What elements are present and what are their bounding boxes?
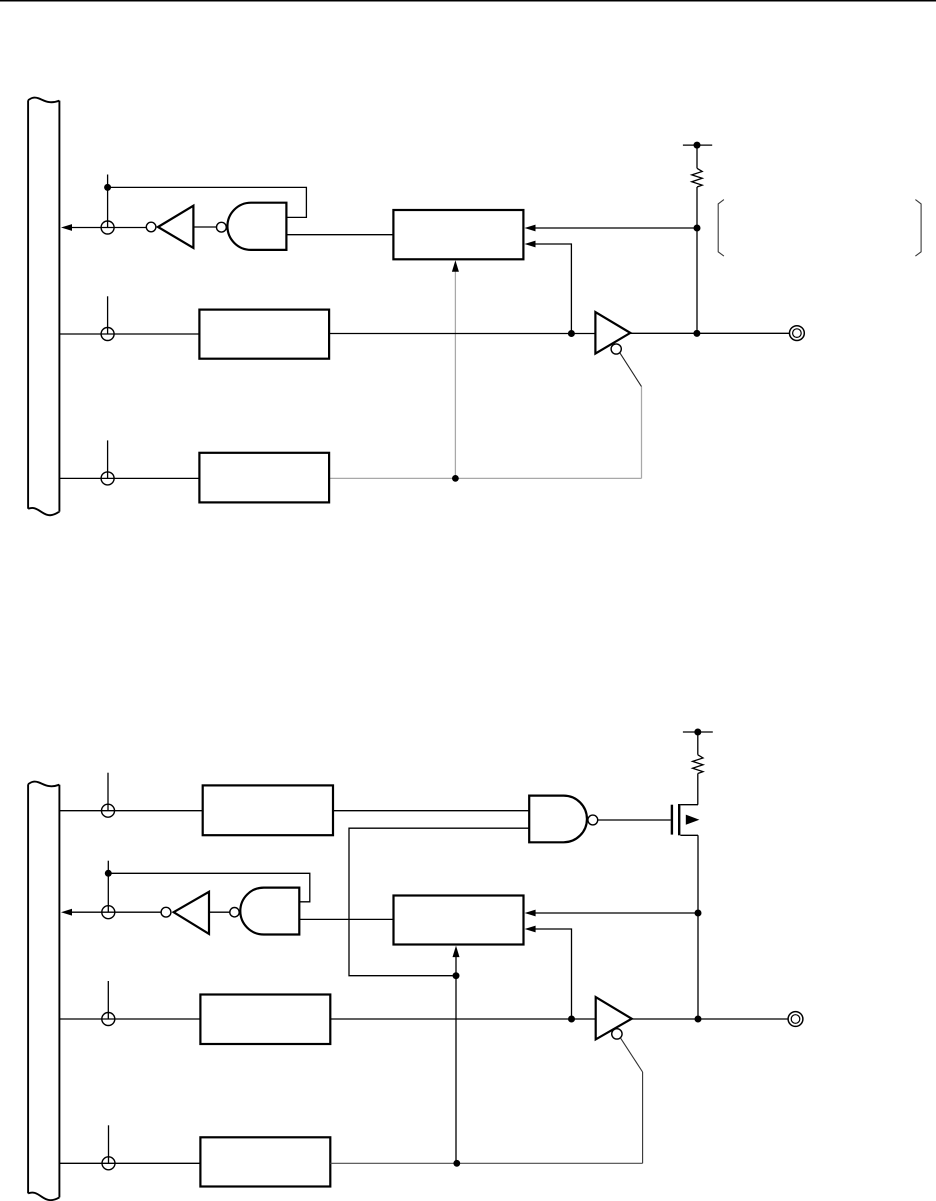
- wire B7 to enable d2 (dark gray): [330, 1162, 642, 1164]
- note bracket right d1: [915, 200, 921, 257]
- wire VDD to resistor R1: [696, 145, 698, 168]
- node enable branch d1: [452, 475, 459, 482]
- arrowhead into B4: [204, 807, 215, 814]
- node RD tap d1: [104, 184, 111, 191]
- wire B5 input 2: [530, 929, 572, 1019]
- inverter U2 bubble: [146, 222, 156, 232]
- arrowhead B1 input 1: [525, 225, 536, 232]
- wire NAND U1 lower input to latch B1: [286, 234, 393, 236]
- wire B4 to NAND U4 upper input: [333, 810, 529, 812]
- wire inverter to NAND d2: [209, 911, 230, 913]
- arrowhead into B2: [201, 331, 212, 338]
- register box B6: [200, 995, 330, 1045]
- wire bus to box B4: [59, 810, 202, 812]
- arrowhead B5 input 1: [525, 910, 536, 917]
- selector circle row3 d1: [101, 472, 114, 485]
- page top rule: [0, 0, 936, 2]
- register box B2 (middle): [199, 310, 329, 359]
- NAND U4 bubble: [588, 815, 598, 825]
- wire bus to box B3: [59, 477, 199, 479]
- pad P2 inner: [791, 1015, 800, 1024]
- NAND U1 bubble: [217, 222, 227, 232]
- selector circle rowD d2: [102, 1157, 115, 1170]
- wire B5 bottom select d2: [455, 955, 457, 1163]
- resistor R2: [693, 755, 703, 774]
- wire R2 to Q1 drain: [697, 774, 699, 805]
- wire VDD to resistor R2: [697, 732, 699, 755]
- wire inverter to NAND d1: [193, 226, 216, 228]
- note bracket left d1: [718, 200, 724, 257]
- arrowhead into bus d1 RD: [61, 224, 72, 231]
- node pull-up branch d1: [694, 225, 701, 232]
- output buffer U3 (tri-state): [595, 312, 630, 354]
- wire B1 bottom select (gray): [454, 268, 456, 478]
- wire RD feedback d1 (to NAND upper input): [108, 187, 307, 217]
- register box B5 (latch of d2): [394, 896, 524, 945]
- output buffer U7 (tri-state): [596, 997, 632, 1039]
- wire B1 input 1 from pull-up node: [530, 227, 697, 229]
- selector circle RD d2: [102, 906, 115, 919]
- wire enable diagonal d1: [620, 353, 642, 387]
- transistor Q1 arrow: [686, 815, 700, 825]
- wire U4 lower input from latch select node: [349, 828, 529, 976]
- NAND U4 (right facing): [529, 796, 587, 843]
- output latch box B7 (bottom of d2): [200, 1137, 330, 1186]
- wire enable vertical d2: [642, 1072, 644, 1163]
- node VDD d2: [694, 729, 701, 736]
- transistor Q1 channel bar: [678, 804, 680, 835]
- wire RD select stub d1: [107, 175, 109, 228]
- NAND U6 (left facing): [240, 888, 299, 935]
- wire enable diagonal d2: [621, 1038, 643, 1072]
- arrowhead into B5 bottom: [453, 946, 460, 958]
- node tristate input junction d1: [568, 330, 575, 337]
- selector circle rowA d2: [102, 804, 115, 817]
- wire RD select stub d2: [107, 861, 109, 913]
- enable bubble U7: [612, 1029, 622, 1039]
- internal bus 1 (left vertical double line with torn ends): [28, 98, 59, 516]
- wire bus to box B6: [59, 1018, 200, 1020]
- wire select stub rowA d2: [107, 773, 109, 811]
- wire Q1 drain lead: [680, 804, 698, 806]
- inverter U2: [158, 206, 193, 248]
- wire output row right d1: [630, 332, 789, 334]
- wire Q1 source to pad line: [697, 835, 699, 1019]
- node B5 input branch: [695, 910, 702, 917]
- inverter U5 bubble: [161, 907, 171, 917]
- output latch box B3 (bottom of d1): [199, 453, 329, 503]
- wire select stub rowC d2: [107, 981, 109, 1019]
- register box B1 (top): [393, 210, 523, 259]
- VDD rail d1: [683, 144, 712, 146]
- NAND U6 bubble: [230, 908, 239, 917]
- arrowhead into bus d2 RD: [61, 909, 72, 916]
- wire NAND U6 lower input to latch B5: [299, 918, 393, 920]
- node pad junction d2: [695, 1016, 702, 1023]
- arrowhead into B1 bottom: [452, 260, 459, 272]
- arrowhead into B3: [201, 475, 212, 482]
- register box B4 (top of d2): [203, 785, 333, 835]
- wire RD row d1 (bus to inverter): [72, 227, 147, 229]
- node latch select d2: [453, 972, 460, 979]
- inverter U5: [174, 892, 209, 934]
- pad P1 inner: [793, 329, 802, 338]
- selector circle RD d1: [101, 221, 114, 234]
- node VDD d1: [694, 142, 701, 149]
- resistor R1: [692, 168, 702, 187]
- node RD tap d2: [105, 870, 112, 877]
- wire output row left d2: [330, 1018, 595, 1020]
- arrowhead into B6: [202, 1016, 213, 1023]
- wire select stub row2 d1: [107, 296, 109, 334]
- selector circle rowC d2: [102, 1013, 115, 1026]
- wire RD feedback d2 (to NAND upper input): [108, 873, 309, 902]
- wire B5 input 1 from pad line: [530, 912, 698, 914]
- node tristate input junction d2: [568, 1016, 575, 1023]
- transistor Q1 gate bar: [671, 805, 673, 835]
- wire bus to box B7: [59, 1162, 200, 1164]
- selector circle row2 d1: [101, 328, 114, 341]
- pad P2 outer: [788, 1012, 803, 1027]
- wire enable vertical d1 (gray): [641, 387, 643, 479]
- enable bubble U3: [611, 344, 621, 354]
- wire output row left d1: [329, 333, 595, 335]
- node pull-up to pad junction d1: [693, 330, 700, 337]
- internal bus 2 (lower diagram): [28, 782, 59, 1201]
- wire output latch B3 to enable (gray) d1: [330, 477, 642, 479]
- wire U4 output to Q1 gate: [598, 819, 671, 821]
- wire select stub rowD d2: [108, 1125, 110, 1163]
- arrowhead B5 input 2: [525, 926, 536, 933]
- arrowhead B1 input 2: [525, 241, 536, 248]
- wire Q1 source lead: [680, 834, 698, 836]
- wire output row right d2: [632, 1018, 788, 1020]
- wire B1 input 2: [530, 244, 571, 334]
- node enable branch d2: [453, 1160, 460, 1167]
- wire bus to box B2: [59, 333, 199, 335]
- wire select stub row3 d1: [107, 440, 109, 478]
- wire R1 to output line d1: [696, 187, 698, 334]
- arrowhead into B7: [202, 1160, 213, 1167]
- VDD rail d2: [683, 731, 713, 733]
- wire RD row d2 (bus to inverter): [72, 911, 162, 913]
- pad P1 outer: [790, 326, 805, 341]
- NAND U1 (left facing): [227, 203, 286, 250]
